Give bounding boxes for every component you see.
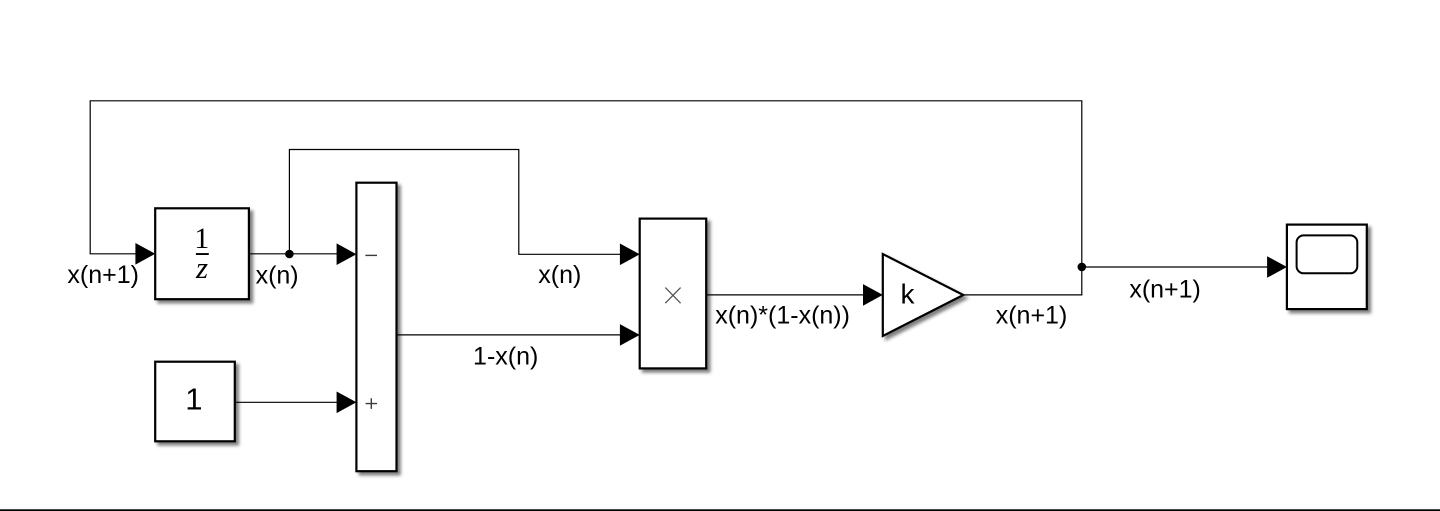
arrowhead into gain xyxy=(863,284,883,306)
svg-text:x(n): x(n) xyxy=(538,261,581,289)
unit delay denominator z xyxy=(180,252,224,283)
unit delay block 1/z xyxy=(155,208,249,299)
sum block xyxy=(356,183,396,472)
product block xyxy=(640,219,707,369)
constant block 1 xyxy=(155,362,235,442)
arrowhead into product top xyxy=(620,244,640,266)
wire product output to gain input xyxy=(706,294,864,296)
sum plus sign xyxy=(366,398,377,409)
svg-text:1: 1 xyxy=(185,382,202,417)
bottom window border bar xyxy=(0,509,1440,511)
arrowhead into unit delay xyxy=(135,243,155,265)
arrowhead into sum minus xyxy=(337,243,357,265)
svg-text:k: k xyxy=(901,279,916,310)
scope screen xyxy=(1297,235,1358,273)
gain block k xyxy=(883,254,964,336)
arrowhead into scope xyxy=(1267,256,1287,278)
wire sum output 1-x(n) to product bottom input xyxy=(397,334,621,336)
wire feedback x(n+1): gain output up over top back to unit delay input xyxy=(90,101,1082,295)
svg-text:x(n+1): x(n+1) xyxy=(1129,275,1201,303)
svg-text:x(n)*(1-x(n)): x(n)*(1-x(n)) xyxy=(715,301,850,329)
svg-text:x(n+1): x(n+1) xyxy=(67,261,139,289)
product multiply symbol xyxy=(665,288,680,304)
svg-text:1-x(n): 1-x(n) xyxy=(473,342,538,370)
scope block xyxy=(1287,225,1367,310)
arrowhead into product bottom xyxy=(620,324,640,346)
wire unit delay output to sum minus input xyxy=(249,253,338,255)
svg-text:x(n): x(n) xyxy=(256,261,299,289)
node junction before scope branch xyxy=(1078,263,1087,272)
node junction after unit delay xyxy=(285,250,294,259)
svg-text:x(n+1): x(n+1) xyxy=(996,301,1068,329)
arrowhead into sum plus xyxy=(337,392,357,414)
wire constant to sum plus input xyxy=(235,401,338,403)
sum minus sign xyxy=(365,254,377,256)
unit delay fraction bar xyxy=(196,253,209,255)
wire node to scope input xyxy=(1082,266,1268,268)
wire x(n) branch to product top input xyxy=(289,150,620,255)
